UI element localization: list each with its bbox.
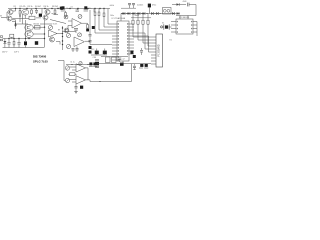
junction diode bus bbox=[142, 13, 143, 14]
svg-text:X1: X1 bbox=[162, 22, 164, 24]
wire mid to IC pin bbox=[85, 41, 112, 44]
label sub bbox=[123, 59, 125, 61]
label RN1 bbox=[110, 5, 115, 7]
junction diode bus bbox=[137, 13, 138, 14]
svg-text:C6: C6 bbox=[71, 7, 73, 9]
wire U6 out bbox=[86, 68, 89, 80]
junction PSU rail bbox=[25, 38, 26, 39]
capacitor C13 polarized bbox=[89, 51, 92, 54]
resistor R13 bbox=[103, 9, 112, 28]
resistor R17 bbox=[132, 20, 134, 24]
svg-text:DIS 73400: DIS 73400 bbox=[33, 55, 47, 59]
svg-text:R3 1k: R3 1k bbox=[28, 6, 33, 8]
svg-text:R9: R9 bbox=[58, 29, 60, 31]
crystal X1 bbox=[160, 22, 172, 29]
diode D14 bbox=[172, 12, 174, 15]
junction on top rail bbox=[19, 8, 20, 9]
junction on top rail bbox=[57, 8, 58, 9]
svg-text:TL071: TL071 bbox=[53, 24, 58, 26]
op-amp U1 bbox=[72, 19, 82, 29]
svg-text:230 V~: 230 V~ bbox=[2, 51, 9, 53]
AC terminal 1 bbox=[0, 36, 2, 38]
junction loop bbox=[99, 81, 100, 82]
transistor Q1 bbox=[8, 10, 13, 15]
capacitor C19 polarized bbox=[148, 4, 151, 14]
capacitor C6 bbox=[71, 7, 80, 12]
wire right edge drop bbox=[195, 5, 197, 16]
wire diagonal to comparator bbox=[50, 20, 66, 24]
resonator box2 bbox=[112, 57, 117, 63]
capacitor C26 bbox=[118, 58, 121, 62]
resistor R3b label bbox=[28, 6, 33, 8]
IC U5 label bbox=[179, 17, 190, 19]
label D16 bbox=[183, 1, 187, 3]
capacitor C5 polarized bbox=[84, 6, 92, 11]
relay K1 bbox=[163, 8, 172, 15]
wire pin4 drop bbox=[108, 9, 112, 25]
wire loop right bbox=[131, 64, 133, 82]
wire cap tops bbox=[121, 7, 136, 9]
capacitor C22 polarized bbox=[130, 51, 133, 54]
IC U2 label bbox=[112, 17, 126, 20]
connector CN1 pins bbox=[151, 37, 156, 64]
svg-text:x2: x2 bbox=[123, 59, 125, 61]
capacitor C17 polarized bbox=[35, 41, 38, 45]
resistor R4 bbox=[31, 9, 33, 16]
resistor R14 bbox=[13, 39, 15, 48]
label R17-20 bbox=[135, 15, 140, 17]
wire U3 out bbox=[57, 29, 63, 34]
wire under IC1 bbox=[122, 61, 124, 64]
wire x94 vertical bbox=[93, 9, 95, 13]
wire vertical x25 bbox=[25, 20, 27, 39]
transistor Q5 bbox=[43, 15, 48, 20]
capacitor C1 bbox=[35, 9, 38, 15]
resistor R2 label bbox=[20, 6, 26, 8]
svg-text:R1: R1 bbox=[14, 6, 16, 8]
trimmer P2 bbox=[78, 15, 82, 19]
label C18 bbox=[137, 4, 143, 6]
title text line1 bbox=[33, 55, 47, 59]
svg-text:4x3k3: 4x3k3 bbox=[135, 15, 140, 17]
diode D16 bbox=[172, 3, 186, 6]
svg-text:IC1 TDA1524A: IC1 TDA1524A bbox=[112, 17, 126, 20]
connector CN1 label bbox=[157, 44, 160, 56]
wire PSU bottom bbox=[3, 47, 44, 49]
label C19 bbox=[152, 5, 156, 7]
capacitor C32 polarized bbox=[70, 61, 97, 66]
diode D9 bbox=[133, 12, 135, 15]
IC U5 right pins bbox=[193, 22, 197, 33]
junction on top rail bbox=[62, 8, 63, 9]
capacitor C15 bbox=[18, 39, 21, 48]
svg-text:C30: C30 bbox=[93, 57, 96, 59]
capacitor C11 pair bbox=[89, 10, 92, 42]
wire long vertical x44 bbox=[44, 20, 45, 48]
resistor R9 bbox=[65, 11, 67, 18]
junction bus d bbox=[62, 44, 63, 45]
fuse F1 bbox=[10, 34, 14, 38]
svg-text:C1 1u: C1 1u bbox=[70, 61, 75, 63]
capacitor C2 polarized bbox=[39, 9, 42, 17]
resistor R1 bbox=[19, 9, 21, 17]
wire L to lower section bbox=[58, 61, 65, 81]
wire Q1 collector to rail bbox=[13, 9, 16, 12]
junction diode bus bbox=[155, 13, 156, 14]
svg-text:PC BOARD: PC BOARD bbox=[157, 44, 160, 56]
supply arrow bbox=[14, 22, 17, 29]
transistor Q4 bbox=[45, 10, 50, 15]
capacitor C33 bbox=[75, 84, 78, 90]
capacitor C8 bbox=[76, 47, 79, 53]
capacitor C29 polarized bbox=[139, 64, 143, 68]
junction on top rail bbox=[15, 8, 16, 9]
junction on top rail bbox=[99, 8, 100, 9]
junction bus b bbox=[62, 36, 63, 37]
trimmer P7 bbox=[48, 25, 52, 29]
junction on top rail bbox=[69, 8, 70, 9]
svg-text:2x9 V: 2x9 V bbox=[14, 51, 20, 53]
wire lower junction bbox=[12, 22, 28, 25]
capacitor C7 polarized bbox=[92, 26, 95, 29]
svg-text:470u: 470u bbox=[152, 5, 156, 7]
svg-text:R8 2k2: R8 2k2 bbox=[52, 6, 58, 8]
resistor R4 label bbox=[35, 6, 41, 8]
wire top supply rail bbox=[8, 8, 110, 10]
svg-text:R6 1k: R6 1k bbox=[44, 6, 49, 8]
junction PSU rail bbox=[28, 38, 29, 39]
wire bottom of caps bbox=[91, 54, 107, 56]
diode D13 bbox=[156, 12, 158, 15]
ground GND1 bbox=[74, 90, 77, 94]
trimmer P5 bbox=[78, 33, 82, 37]
resistor R12 bbox=[98, 9, 112, 31]
junction diode bus bbox=[122, 13, 123, 14]
transistor Q9 ellipse bbox=[25, 24, 33, 30]
wire U1 output bbox=[82, 22, 88, 24]
diode D8 bbox=[128, 12, 130, 15]
wire fan IC1-CN1 bbox=[133, 24, 151, 52]
input terminal J1 bbox=[0, 16, 7, 18]
resistor R18 bbox=[137, 20, 139, 24]
svg-text:10u: 10u bbox=[89, 8, 92, 10]
wire subtop bbox=[101, 56, 128, 58]
junction on top rail bbox=[51, 8, 52, 9]
capacitor C30 polarized bbox=[144, 64, 148, 68]
wire interstage bbox=[52, 14, 59, 15]
svg-text:10u: 10u bbox=[66, 8, 69, 10]
resistor R20 bbox=[147, 20, 149, 24]
svg-text:SPLG 7L05: SPLG 7L05 bbox=[33, 59, 48, 63]
transistor Q10 ellipse bbox=[25, 31, 33, 37]
resistor R16 box bbox=[35, 26, 41, 30]
wire node B bbox=[19, 15, 20, 22]
connector CN1 body bbox=[156, 34, 163, 67]
svg-text:100n: 100n bbox=[110, 15, 114, 17]
svg-text:IC2 NE555: IC2 NE555 bbox=[179, 17, 190, 19]
wire U6 in bbox=[70, 67, 76, 70]
capacitor C4 polarized bbox=[61, 6, 69, 11]
capacitor C20 bbox=[188, 3, 197, 7]
resonator box1 bbox=[106, 57, 111, 63]
resistor R19 bbox=[142, 20, 144, 24]
wire U7 in bbox=[70, 80, 76, 83]
jack J3 bbox=[65, 78, 69, 82]
wire Q1 base bbox=[7, 12, 8, 18]
resistor R1 label bbox=[14, 6, 16, 8]
wire Q9 out bbox=[33, 27, 45, 28]
label CN1 note bbox=[170, 40, 172, 42]
junction bus a bbox=[62, 27, 63, 28]
capacitor C16 polarized bbox=[24, 39, 27, 48]
title text line2 bbox=[33, 59, 48, 63]
capacitor C14 bbox=[8, 39, 11, 48]
wire IC2 top bbox=[176, 16, 196, 20]
lamp LP1 bbox=[160, 26, 162, 28]
LED D6 bbox=[3, 39, 6, 48]
op-amp U4 bbox=[74, 37, 85, 47]
resistor R10 bbox=[86, 23, 89, 31]
svg-text:4148: 4148 bbox=[183, 1, 187, 3]
jack J2 bbox=[65, 66, 69, 70]
wire IC2 right bus bbox=[196, 22, 198, 37]
junction on top rail bbox=[35, 8, 36, 9]
wire Q10 out bbox=[33, 33, 45, 34]
wire U1 inputs bbox=[68, 21, 72, 32]
capacitor C10 bbox=[74, 29, 78, 34]
junction bus c bbox=[62, 40, 63, 41]
transistor Q3 ellipse bbox=[22, 9, 29, 15]
label RN2 bbox=[110, 15, 114, 17]
svg-text:R2 47k: R2 47k bbox=[20, 6, 26, 8]
capacitor C28 bbox=[133, 64, 136, 70]
wire Q2 emitter bbox=[12, 20, 16, 24]
junction diode bus bbox=[160, 13, 161, 14]
AC terminal 2 bbox=[0, 39, 2, 41]
wire Q3 emitter bbox=[13, 15, 30, 19]
wire h24 bbox=[40, 23, 52, 25]
transistor Q8 bbox=[50, 37, 55, 42]
capacitor C25 polarized bbox=[120, 63, 124, 66]
wire bus risers bbox=[131, 14, 151, 21]
wire br bbox=[132, 63, 152, 65]
capacitor C24 polarized bbox=[133, 55, 136, 58]
label U3a bbox=[53, 24, 58, 26]
label sec bbox=[14, 51, 20, 53]
wire AC top bbox=[3, 38, 44, 40]
capacitor C36 polarized bbox=[103, 49, 107, 56]
capacitor C3 polarized bbox=[60, 7, 63, 10]
label R6 bbox=[44, 6, 49, 8]
junction diode bus bbox=[147, 13, 148, 14]
diode D12 bbox=[151, 12, 153, 15]
op-amp U3 small bbox=[49, 30, 58, 37]
IC U2 right pins bbox=[129, 24, 134, 54]
wire diode bus bbox=[121, 13, 180, 15]
resistor R5 box bbox=[29, 16, 35, 19]
resistor R11 bbox=[94, 9, 112, 34]
capacitor C23 bbox=[140, 48, 143, 55]
resistor R15 box bbox=[69, 73, 77, 76]
junction on top rail bbox=[26, 8, 27, 9]
junction PSU rail bbox=[8, 38, 9, 39]
wire loop bottom bbox=[90, 81, 132, 83]
junction diode bus bbox=[132, 13, 133, 14]
wire mid vertical bus bbox=[62, 26, 64, 50]
junction on top rail bbox=[103, 8, 104, 9]
svg-text:K1: K1 bbox=[170, 40, 172, 42]
label 230V bbox=[2, 51, 9, 53]
junction on top rail bbox=[94, 8, 95, 9]
svg-text:4x10k: 4x10k bbox=[110, 5, 115, 7]
diode D15 bbox=[177, 12, 179, 15]
IC U2 left pins bbox=[112, 24, 117, 60]
capacitor C27 stack bbox=[95, 60, 99, 68]
wire bus left drop bbox=[120, 14, 122, 22]
wire U7 out bbox=[86, 80, 91, 82]
IC U2 pin numbers bbox=[118, 23, 129, 60]
wire loop top bbox=[97, 63, 132, 65]
wire right drop bbox=[56, 42, 60, 45]
capacitor C12 polarized bbox=[89, 46, 92, 49]
label R7 bbox=[52, 6, 58, 8]
junction PSU rail bbox=[13, 38, 14, 39]
diode D11 bbox=[143, 12, 145, 15]
junction on top rail bbox=[44, 8, 45, 9]
junction on top rail bbox=[77, 8, 78, 9]
trimmer P1 bbox=[64, 15, 68, 19]
transistor Q6 bbox=[64, 28, 69, 33]
label T1 bbox=[34, 23, 40, 25]
junction on top rail bbox=[87, 8, 88, 9]
trimmer P3 bbox=[66, 33, 70, 37]
capacitor C31 polarized bbox=[89, 62, 93, 66]
svg-text:2x100n: 2x100n bbox=[137, 4, 143, 6]
transistor Q2 bbox=[7, 16, 12, 21]
trimmer P6 bbox=[79, 62, 82, 65]
junction PSU rail bbox=[18, 38, 19, 39]
wire to mid bbox=[36, 17, 41, 19]
capacitor C35 polarized bbox=[95, 49, 99, 56]
label C27 bbox=[93, 57, 96, 59]
op-amp U7 bbox=[76, 76, 86, 84]
diode D10 bbox=[138, 12, 140, 15]
capacitor C34 polarized bbox=[80, 86, 83, 89]
label C35 bbox=[91, 49, 94, 51]
svg-text:BD140: BD140 bbox=[34, 23, 40, 25]
capacitor C9 bbox=[72, 49, 75, 53]
resistor R8 bbox=[54, 9, 56, 16]
wire bottom rail bbox=[66, 64, 96, 65]
capacitor C18 bbox=[128, 3, 135, 8]
wire bottom return bbox=[62, 31, 76, 33]
diode D7 bbox=[123, 12, 125, 15]
op-amp U6 bbox=[76, 64, 86, 72]
IC U5 left pins bbox=[171, 22, 176, 33]
junction diode bus bbox=[127, 13, 128, 14]
IC U2 body bbox=[117, 21, 129, 61]
trimmer P4 bbox=[66, 44, 70, 48]
svg-text:R4 4k7: R4 4k7 bbox=[35, 6, 41, 8]
IC U5 body bbox=[176, 19, 193, 34]
wire vertical x22 bbox=[22, 14, 24, 24]
